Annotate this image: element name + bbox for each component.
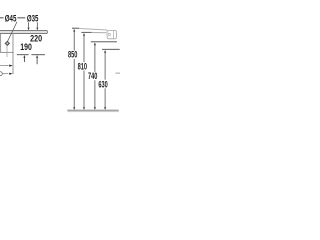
740 level bar: [91, 41, 117, 43]
850 level bar: [72, 27, 79, 29]
svg-text:740: 740: [88, 71, 97, 81]
faucet spout top line (gray): [79, 29, 107, 31]
floor line: [67, 109, 118, 111]
svg-text:850: 850: [68, 50, 77, 60]
floor shading band: [68, 111, 119, 112]
horizontal dim arrow at y65.6 pointing right to back line: [0, 65, 13, 67]
dim line 630 with arrows: [104, 50, 106, 110]
drain stub line: [6, 46, 8, 57]
leader dash between Ø45 and Ø35: [17, 16, 25, 19]
svg-text:190: 190: [20, 42, 32, 52]
diagonal leader from Ø45 label to diamond hole: [8, 22, 17, 42]
810 level bar (dark part of spout bottom): [81, 31, 91, 33]
svg-text:630: 630: [98, 79, 107, 89]
dim line 810 with arrows: [83, 33, 85, 110]
svg-text:Ø45: Ø45: [5, 14, 17, 24]
underside line (right segment): [31, 54, 45, 56]
cropped neighbor dimension dash at right edge: [115, 72, 120, 74]
dim line 850 with arrows: [73, 29, 75, 110]
leader line down from Ø35 (left) with arrow onto rim: [27, 22, 29, 30]
up arrow under line for dim 190: [23, 55, 25, 62]
leader dash left of Ø45 label: [0, 16, 4, 19]
basin back box below rim: [0, 34, 13, 74]
horizontal dim arrow at y73.7 pointing right to back line: [3, 73, 13, 75]
leader line down from Ø35 (right) with arrow onto rim: [36, 22, 38, 30]
underside line (left segment): [17, 54, 29, 56]
630 level bar: [102, 48, 120, 50]
faucet box divider line: [113, 31, 115, 39]
faucet body box on wall (gray): [107, 30, 116, 38]
faucet box inner circle: [108, 33, 110, 35]
drain outlet circle at left edge: [0, 72, 2, 76]
svg-text:810: 810: [78, 61, 87, 71]
faucet spout bottom line (gray): [92, 32, 107, 34]
svg-text:Ø35: Ø35: [27, 14, 39, 24]
dim line 740 with arrows: [94, 42, 96, 110]
up arrow under line for dim 220: [36, 55, 38, 64]
diamond fixing-hole symbol: [5, 41, 10, 45]
basin rim band (side section): [0, 30, 48, 33]
